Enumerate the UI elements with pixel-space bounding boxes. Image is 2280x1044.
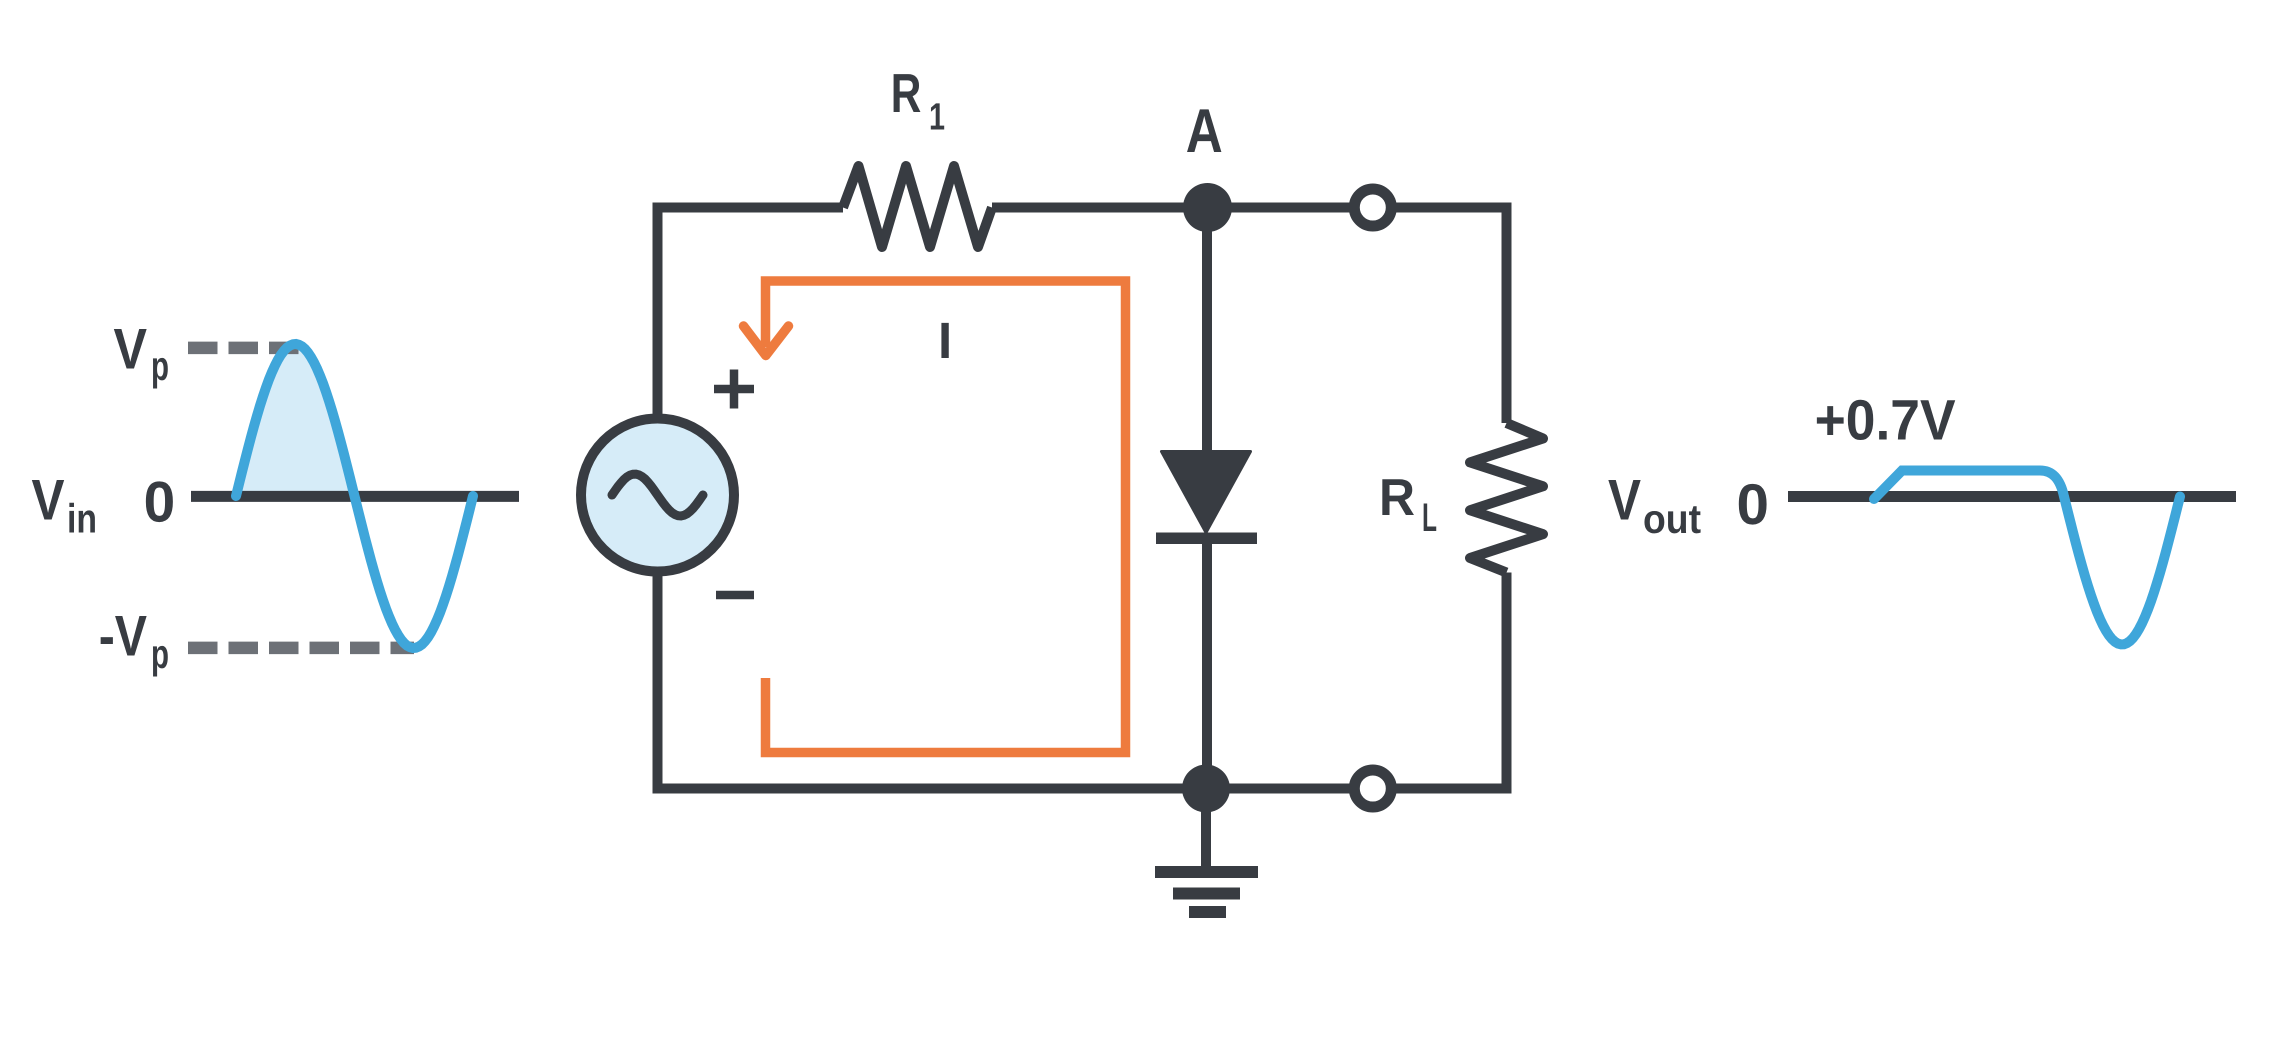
svg-text:+0.7V: +0.7V bbox=[1815, 389, 1956, 453]
label -Vp bbox=[99, 605, 169, 677]
wire R1 to node A bbox=[992, 203, 1208, 213]
output terminal bottom (open circle) bbox=[1354, 770, 1391, 807]
svg-text:R: R bbox=[1379, 469, 1415, 527]
diode D1 anode wire bbox=[1202, 208, 1212, 453]
bottom junction dot bbox=[1182, 765, 1230, 813]
input waveform zero axis bbox=[191, 491, 519, 502]
svg-text:I: I bbox=[938, 312, 952, 369]
wire source top to R1 bbox=[658, 208, 844, 420]
input sine curve Vin bbox=[236, 344, 473, 648]
diode D1 cathode bar bbox=[1156, 533, 1257, 545]
svg-text:-V: -V bbox=[99, 605, 147, 669]
label RL bbox=[1379, 469, 1437, 540]
polarity + bbox=[714, 370, 754, 409]
svg-text:out: out bbox=[1643, 496, 1701, 542]
input waveform positive-lobe fill bbox=[236, 344, 355, 496]
svg-text:V: V bbox=[1608, 469, 1641, 533]
Vp dashed level line bbox=[188, 342, 300, 355]
wire node A to top terminal bbox=[1208, 203, 1352, 213]
AC source V1 bbox=[581, 419, 734, 572]
svg-text:V: V bbox=[114, 317, 148, 381]
diode D1 triangle bbox=[1162, 452, 1251, 533]
svg-text:1: 1 bbox=[929, 97, 945, 139]
label Vout bbox=[1608, 469, 1701, 543]
label R1 bbox=[891, 62, 945, 139]
ground bbox=[1155, 789, 1258, 913]
current arrowhead bbox=[744, 326, 789, 356]
svg-text:0: 0 bbox=[144, 470, 176, 534]
output waveform zero axis bbox=[1788, 491, 2236, 502]
wire bottom terminal to ground node bbox=[1206, 784, 1352, 794]
diode D1 cathode wire bbox=[1202, 538, 1212, 788]
svg-text:p: p bbox=[151, 343, 169, 389]
node A junction dot bbox=[1183, 183, 1232, 232]
svg-text:V: V bbox=[32, 468, 65, 532]
svg-text:p: p bbox=[151, 631, 169, 677]
current loop I (orange) bbox=[766, 281, 1126, 753]
output clipped waveform Vout bbox=[1874, 471, 2180, 645]
svg-text:0: 0 bbox=[1737, 473, 1770, 537]
wire bottom node to source bbox=[658, 571, 1207, 789]
svg-text:R: R bbox=[891, 62, 922, 124]
label Vp bbox=[114, 317, 170, 389]
-Vp dashed level line bbox=[188, 642, 414, 655]
wire top terminal to RL bbox=[1394, 208, 1507, 424]
svg-text:L: L bbox=[1422, 496, 1437, 540]
output terminal top (open circle) bbox=[1354, 189, 1391, 226]
wire RL bottom to bottom terminal bbox=[1394, 573, 1507, 789]
resistor R1 bbox=[843, 166, 992, 247]
label Vin bbox=[32, 468, 98, 541]
svg-text:A: A bbox=[1186, 97, 1223, 166]
resistor RL bbox=[1470, 423, 1543, 573]
polarity - bbox=[716, 591, 754, 600]
svg-text:in: in bbox=[67, 495, 97, 541]
